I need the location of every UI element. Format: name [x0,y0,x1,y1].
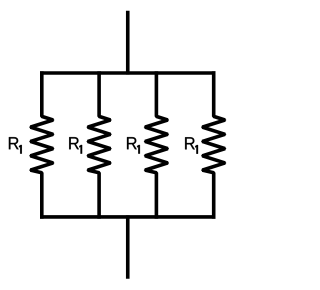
label R1 for branch 4 [185,137,198,154]
wire bottom feed [126,215,130,279]
wire top feed [126,11,130,75]
label R1 for branch 1 [9,137,22,154]
resistor R1 branch 1 [29,71,54,219]
resistor R1 branch 3 [144,71,169,219]
wire top bus [40,71,216,75]
label R1 for branch 2 [69,137,82,154]
label R1 for branch 3 [127,137,140,154]
wire bottom bus [40,215,216,219]
resistor R1 branch 4 [201,71,226,219]
resistor R1 branch 2 [86,71,111,219]
